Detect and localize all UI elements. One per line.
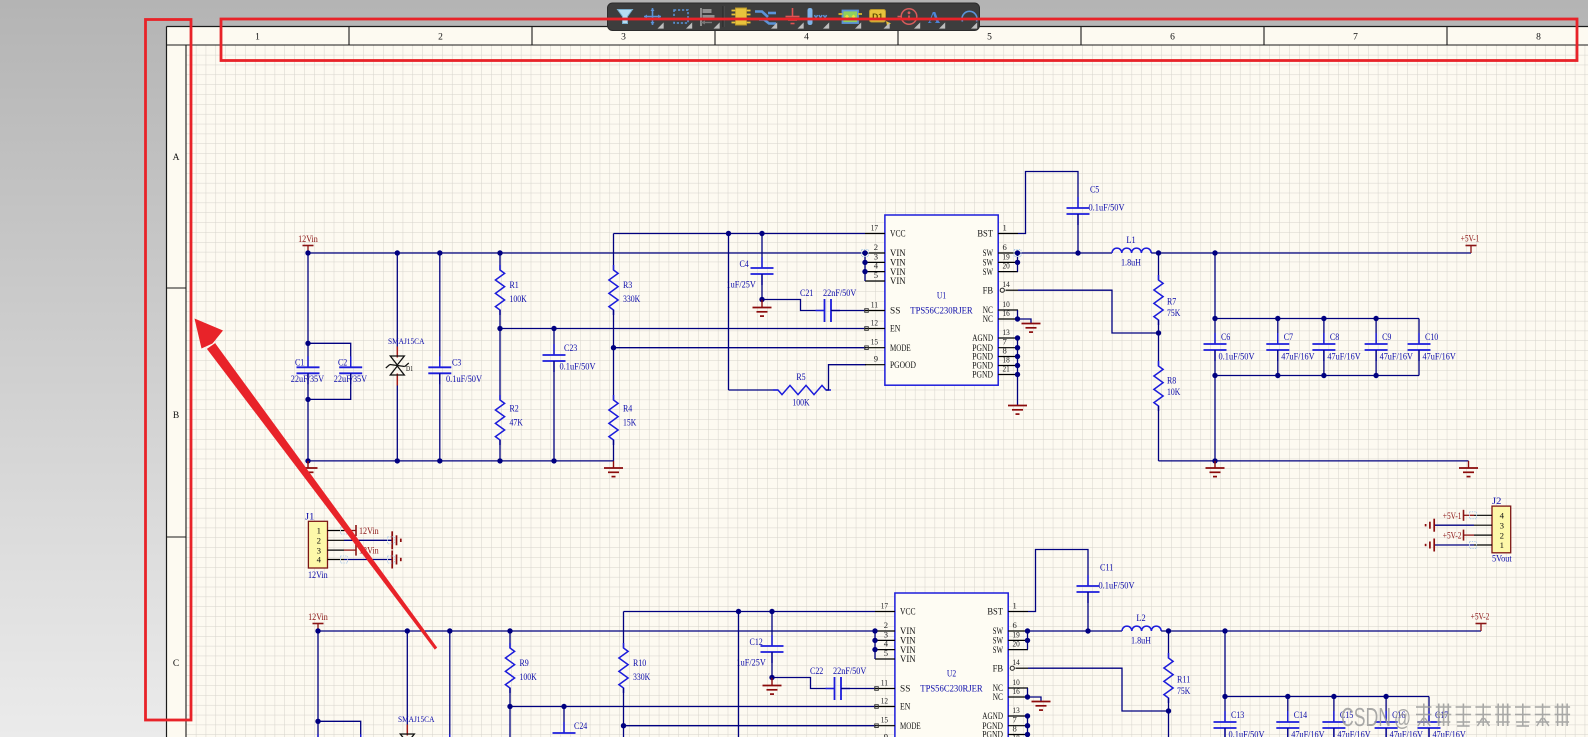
buck converter circuit 2 — [301, 550, 1490, 737]
junction C5/SW — [1085, 628, 1090, 633]
junction C3 branch — [437, 250, 442, 255]
ground at J1 pin2 — [392, 531, 401, 549]
ground at NC pins — [1032, 702, 1051, 711]
svg-text:C7: C7 — [1284, 333, 1294, 343]
capacitor C15 — [1322, 697, 1370, 737]
wire J1 pin2 to gnd — [344, 539, 392, 541]
capacitor C16 — [1375, 697, 1423, 737]
svg-text:0.1uF/50V: 0.1uF/50V — [1089, 204, 1125, 214]
wire FB net — [1018, 290, 1159, 333]
power port 12Vin (bottom) — [308, 613, 328, 631]
toolbar icon part body — [839, 11, 863, 29]
junction top bus C14 — [1285, 694, 1290, 699]
junction C4 — [769, 609, 774, 614]
toolbar icon move crosshair — [644, 8, 664, 29]
wire J1 pin4 to gnd — [344, 559, 392, 561]
svg-text:FB: FB — [993, 663, 1003, 673]
resistor R11 — [1164, 631, 1191, 711]
svg-text:L1: L1 — [1126, 236, 1136, 246]
wire VIN pin bus — [874, 631, 876, 659]
svg-text:C11: C11 — [1100, 564, 1114, 574]
red highlight rectangle left border zone — [146, 20, 192, 721]
svg-text:15: 15 — [871, 337, 878, 347]
capacitor C10 — [1408, 319, 1456, 376]
svg-text:47uF/16V: 47uF/16V — [1327, 353, 1360, 363]
buck converter circuit 1 — [291, 172, 1480, 477]
svg-text:1: 1 — [255, 33, 260, 43]
svg-text:R7: R7 — [1167, 298, 1177, 308]
junction MODE divider — [611, 345, 616, 350]
svg-text:L2: L2 — [1136, 614, 1146, 624]
resistor R14 PGOOD pull-up — [739, 612, 877, 737]
svg-text:A: A — [173, 153, 180, 163]
junction AGND13 — [1015, 335, 1020, 340]
svg-text:C23: C23 — [564, 344, 578, 354]
svg-text:0.1uF/50V: 0.1uF/50V — [560, 363, 596, 373]
svg-text:3: 3 — [1500, 520, 1505, 530]
svg-text:C5: C5 — [1090, 186, 1100, 196]
junction top bus C9 — [1373, 316, 1378, 321]
svg-text:C: C — [173, 659, 179, 669]
svg-text:SS: SS — [890, 306, 900, 316]
ground at C4 — [753, 300, 772, 317]
junction gnd R2 — [497, 458, 502, 463]
svg-text:+5V-1: +5V-1 — [1443, 512, 1462, 522]
svg-text:C24: C24 — [574, 722, 588, 732]
ground right rail end — [1459, 461, 1478, 477]
svg-text:C2: C2 — [338, 359, 348, 369]
capacitor C17 — [1418, 697, 1466, 737]
resistor R12 — [505, 707, 533, 737]
power port 12Vin at J1 pin1 — [344, 525, 379, 537]
junction VIN 3 — [862, 260, 867, 265]
svg-text:VCC: VCC — [890, 229, 906, 239]
svg-text:1: 1 — [1500, 540, 1504, 550]
svg-text:SS: SS — [900, 684, 910, 694]
svg-text:NC: NC — [993, 692, 1003, 702]
svg-text:1.8uH: 1.8uH — [1131, 637, 1151, 647]
toolbar icon text A — [928, 8, 945, 29]
wire output cap top bus — [1215, 253, 1419, 319]
floating toolbar — [608, 3, 980, 31]
svg-text:C21: C21 — [800, 289, 814, 299]
red annotation arrow — [195, 319, 438, 650]
svg-text:14: 14 — [1013, 657, 1021, 667]
svg-text:D1: D1 — [406, 365, 413, 373]
svg-text:CSDN: CSDN — [1341, 702, 1391, 732]
svg-text:PGND: PGND — [982, 730, 1003, 737]
svg-text:1: 1 — [1003, 223, 1007, 233]
svg-text:MODE: MODE — [900, 721, 921, 731]
compile marks (dotted) — [341, 250, 1477, 564]
svg-text:+5V-2: +5V-2 — [1471, 613, 1490, 623]
junction gnd C3 — [437, 458, 442, 463]
junction bottom bus C8 — [1321, 373, 1326, 378]
sheet border zone letters — [173, 153, 180, 669]
wire AGND/PGND bus — [1017, 338, 1019, 406]
junction top bus C6 — [1222, 694, 1227, 699]
wire MODE net — [624, 725, 877, 727]
wire inductor to output — [1151, 252, 1471, 254]
junction top bus C15 — [1331, 694, 1336, 699]
power port +5V-1 at J2 pin4 — [1443, 510, 1474, 522]
svg-text:47uF/16V: 47uF/16V — [1291, 731, 1324, 737]
svg-text:VIN: VIN — [900, 654, 916, 664]
junction output caps — [1222, 628, 1227, 633]
svg-text:C22: C22 — [810, 667, 824, 677]
svg-text:C10: C10 — [1425, 333, 1439, 343]
capacitor C14 — [1276, 697, 1324, 737]
svg-text:SMAJ15CA: SMAJ15CA — [398, 714, 435, 724]
junction FB divider — [1156, 330, 1161, 335]
wire SW to inductor — [1028, 630, 1123, 632]
capacitor C1 — [291, 253, 324, 461]
junction VIN 2 — [862, 250, 867, 255]
wire 12Vin rail — [318, 630, 875, 632]
svg-text:TPS56C230RJER: TPS56C230RJER — [920, 685, 983, 695]
junction top bus C7 — [1275, 316, 1280, 321]
inductor L2 — [1122, 614, 1161, 647]
svg-text:1: 1 — [1013, 601, 1017, 611]
svg-text:12Vin: 12Vin — [308, 571, 328, 581]
svg-text:11: 11 — [871, 300, 878, 310]
svg-text:C6: C6 — [1221, 333, 1231, 343]
svg-text:5: 5 — [884, 648, 888, 658]
svg-text:18: 18 — [1013, 733, 1020, 737]
junction C3 branch — [447, 628, 452, 633]
ground at PGND — [1008, 406, 1027, 415]
watermark CSDN — [1341, 702, 1570, 732]
svg-text:4: 4 — [1500, 511, 1505, 521]
svg-text:C3: C3 — [452, 359, 462, 369]
svg-text:12Vin: 12Vin — [308, 613, 328, 623]
svg-text:B: B — [173, 411, 179, 421]
toolbar icon no-ERC directive — [898, 9, 921, 29]
toolbar icon designator tag — [870, 10, 892, 29]
junction C23 tap — [551, 326, 556, 331]
junction C5/SW — [1075, 250, 1080, 255]
TVS diode D2 SMAJ15CA — [396, 631, 435, 737]
resistor R4 — [609, 348, 637, 461]
toolbar icon align — [701, 8, 720, 29]
junction gnd D — [395, 458, 400, 463]
junction R5 pullup — [736, 609, 741, 614]
TVS diode D1 SMAJ15CA — [386, 253, 425, 461]
wire VCC net — [624, 611, 876, 613]
wire AGND/PGND bus — [1027, 716, 1029, 737]
ground at C4 — [763, 678, 782, 695]
svg-text:PGOOD: PGOOD — [890, 360, 916, 370]
junction MODE divider — [621, 723, 626, 728]
svg-text:47uF/16V: 47uF/16V — [1433, 731, 1466, 737]
svg-text:47uF/16V: 47uF/16V — [1390, 731, 1423, 737]
svg-text:A: A — [928, 8, 941, 27]
svg-text:0.1uF/50V: 0.1uF/50V — [1219, 353, 1255, 363]
junction VIN 3 — [872, 638, 877, 643]
junction NC — [1025, 694, 1030, 699]
power port +5V-1 — [1461, 235, 1480, 254]
svg-text:12Vin: 12Vin — [359, 527, 379, 537]
junction D branch — [395, 250, 400, 255]
svg-text:100K: 100K — [520, 673, 537, 683]
capacitor C18 — [301, 631, 334, 737]
junction gnd C23 — [551, 458, 556, 463]
svg-text:U2: U2 — [947, 670, 957, 680]
svg-text:C12: C12 — [750, 638, 764, 648]
wire J2 pin1 to gnd — [1434, 544, 1474, 546]
svg-text:R8: R8 — [1167, 377, 1177, 387]
resistor R13 — [619, 726, 647, 737]
resistor R1 — [495, 253, 527, 329]
svg-text:22nF/50V: 22nF/50V — [823, 289, 856, 299]
junction R5 pullup — [726, 231, 731, 236]
capacitor C21 series to SS — [762, 289, 866, 322]
svg-text:4: 4 — [317, 555, 322, 565]
wire SW pin bus — [1027, 631, 1029, 650]
svg-text:VCC: VCC — [900, 607, 916, 617]
svg-text:330K: 330K — [623, 295, 640, 305]
power port 12Vin (top) — [298, 235, 318, 253]
svg-text:EN: EN — [890, 324, 901, 334]
svg-text:C9: C9 — [1382, 333, 1392, 343]
junction L out / R7 — [1166, 628, 1171, 633]
svg-text:AGND: AGND — [982, 711, 1003, 721]
toolbar icon place part — [732, 8, 751, 25]
wire J2 pin3 to gnd — [1434, 524, 1474, 526]
junction C4/C21 gnd node — [769, 675, 774, 680]
toolbar icon filter — [618, 10, 633, 24]
capacitor C6 — [1204, 319, 1255, 376]
wire output cap bottom bus — [1215, 376, 1419, 461]
junction PGND8 — [1025, 732, 1030, 737]
svg-text:47uF/16V: 47uF/16V — [1380, 353, 1413, 363]
svg-text:2: 2 — [317, 536, 321, 546]
junction VIN 4 — [872, 647, 877, 652]
wire inductor to output — [1161, 630, 1481, 632]
svg-text:3: 3 — [621, 33, 626, 43]
svg-text:C1: C1 — [295, 359, 305, 369]
svg-text:R1: R1 — [510, 281, 520, 291]
svg-text:22uF/35V: 22uF/35V — [291, 375, 324, 385]
wire EN net — [510, 706, 876, 708]
svg-text:FB: FB — [983, 285, 993, 295]
resistor R3 — [609, 234, 641, 348]
IC U2 TPS56C230RJER — [875, 593, 1028, 737]
svg-text:75K: 75K — [1167, 309, 1180, 319]
svg-text:C14: C14 — [1294, 711, 1308, 721]
svg-text:1.8uH: 1.8uH — [1121, 259, 1141, 269]
wire GND rail right — [1159, 460, 1469, 462]
ground under output caps — [1206, 461, 1225, 477]
ground at NC pins — [1022, 324, 1041, 333]
svg-text:R4: R4 — [623, 405, 633, 415]
wire SW pin bus — [1017, 253, 1019, 272]
toolbar icon arc — [962, 11, 977, 28]
junction C4 — [759, 231, 764, 236]
wire output cap top bus — [1225, 631, 1429, 697]
junction L out / R7 — [1156, 250, 1161, 255]
svg-text:SW: SW — [993, 645, 1004, 655]
connector J2 — [1474, 497, 1512, 565]
svg-text:100K: 100K — [510, 295, 527, 305]
junction NC — [1015, 316, 1020, 321]
svg-text:9: 9 — [874, 354, 878, 364]
svg-text:14: 14 — [1003, 279, 1011, 289]
svg-text:16: 16 — [1013, 686, 1021, 696]
wire VCC net — [614, 233, 866, 235]
svg-text:22nF/50V: 22nF/50V — [833, 667, 866, 677]
svg-text:AGND: AGND — [972, 333, 993, 343]
capacitor C24 — [553, 707, 606, 737]
junction C2 top — [315, 719, 320, 724]
connector J1 — [305, 513, 344, 582]
junction SW 6 — [1025, 628, 1030, 633]
resistor R8 — [1154, 333, 1181, 461]
capacitor C13 — [1214, 697, 1265, 737]
capacitor C3 — [428, 253, 482, 461]
svg-text:BST: BST — [987, 607, 1003, 617]
wire 12Vin rail — [308, 252, 865, 254]
power port 12Vin at J1 pin3 — [344, 545, 379, 557]
capacitor C11 bootstrap — [1028, 550, 1135, 632]
svg-text:MODE: MODE — [890, 343, 911, 353]
junction SW 19 — [1025, 638, 1030, 643]
resistor R15 — [1164, 711, 1191, 737]
svg-text:15K: 15K — [623, 419, 636, 429]
resistor R9 — [505, 631, 537, 707]
svg-text:SW: SW — [983, 267, 994, 277]
resistor R5 PGOOD pull-up — [729, 234, 867, 409]
svg-text:2: 2 — [1500, 530, 1504, 540]
svg-text:R11: R11 — [1177, 676, 1191, 686]
svg-text:8: 8 — [1536, 33, 1541, 43]
capacitor C2 — [308, 343, 367, 399]
junction PGND7 — [1025, 723, 1030, 728]
svg-text:PGND: PGND — [972, 370, 993, 380]
junction output caps — [1212, 250, 1217, 255]
svg-text:1uF/25V: 1uF/25V — [727, 281, 756, 291]
svg-text:5Vout: 5Vout — [1492, 555, 1512, 565]
capacitor C23 — [543, 329, 596, 461]
wire VIN pin bus — [864, 253, 866, 281]
svg-text:47K: 47K — [510, 419, 523, 429]
toolbar icon selection rectangle — [674, 10, 692, 29]
toolbar icon probe — [808, 8, 830, 29]
svg-text:20: 20 — [1003, 261, 1010, 271]
junction bottom bus C6 — [1212, 373, 1217, 378]
power port +5V-2 at J2 pin2 — [1443, 530, 1474, 542]
junction VIN 2 — [872, 628, 877, 633]
wire MODE net — [614, 347, 867, 349]
svg-text:R5: R5 — [796, 373, 806, 383]
junction gnd rail caps — [1212, 458, 1217, 463]
capacitor C4 — [727, 234, 774, 300]
wire GND rail left — [308, 460, 614, 462]
svg-text:1uF/25V: 1uF/25V — [737, 659, 766, 669]
svg-text:7: 7 — [1353, 33, 1358, 43]
svg-text:1: 1 — [317, 526, 321, 536]
svg-text:6: 6 — [1170, 33, 1175, 43]
svg-text:0.1uF/50V: 0.1uF/50V — [446, 375, 482, 385]
svg-text:R2: R2 — [510, 405, 520, 415]
toolbar separator — [723, 6, 724, 27]
svg-text:C4: C4 — [740, 260, 750, 270]
junction R divider branch — [497, 250, 502, 255]
junction SW 19 — [1015, 260, 1020, 265]
junction top bus C6 — [1212, 316, 1217, 321]
capacitor C7 — [1266, 319, 1314, 376]
svg-text:75K: 75K — [1177, 687, 1190, 697]
svg-text:TPS56C230RJER: TPS56C230RJER — [910, 307, 973, 317]
junction PGND18 — [1015, 363, 1020, 368]
svg-text:BST: BST — [977, 229, 993, 239]
junction AGND13 — [1025, 713, 1030, 718]
junction C2 top — [305, 341, 310, 346]
junction EN divider — [497, 326, 502, 331]
svg-text:C8: C8 — [1330, 333, 1340, 343]
sheet border column/row dividers — [167, 27, 1448, 538]
svg-text:VIN: VIN — [890, 276, 906, 286]
capacitor C8 — [1312, 319, 1360, 376]
svg-text:12: 12 — [881, 696, 888, 706]
svg-text:R9: R9 — [520, 659, 530, 669]
svg-text:0.1uF/50V: 0.1uF/50V — [1099, 582, 1135, 592]
wire NC bus — [1028, 688, 1042, 702]
svg-text:47uF/16V: 47uF/16V — [1281, 353, 1314, 363]
svg-text:4: 4 — [804, 33, 809, 43]
svg-text:NC: NC — [983, 314, 993, 324]
svg-text:@: @ — [1394, 705, 1411, 731]
svg-text:C13: C13 — [1231, 711, 1245, 721]
svg-text:9: 9 — [884, 732, 888, 737]
capacitor C5 bootstrap — [1018, 172, 1125, 254]
svg-text:0.1uF/50V: 0.1uF/50V — [1229, 731, 1265, 737]
svg-text:100K: 100K — [792, 399, 809, 409]
ground right of R4 — [604, 461, 623, 477]
junction FB divider — [1166, 708, 1171, 713]
svg-text:12: 12 — [871, 318, 878, 328]
junction 12Vin/C branch — [305, 250, 310, 255]
wire NC bus — [1018, 310, 1032, 324]
svg-text:13: 13 — [1013, 705, 1020, 715]
junction SW 6 — [1015, 250, 1020, 255]
junction 12Vin/C branch — [315, 628, 320, 633]
power port +5V-2 — [1471, 613, 1490, 632]
svg-text:47uF/16V: 47uF/16V — [1423, 353, 1456, 363]
capacitor C19 — [318, 721, 377, 737]
junction PGND21 — [1015, 372, 1020, 377]
junction D branch — [405, 628, 410, 633]
wire SW to inductor — [1018, 252, 1113, 254]
svg-text:10K: 10K — [1167, 388, 1180, 398]
red highlight rectangle top border zone — [221, 19, 1577, 61]
svg-text:21: 21 — [1003, 364, 1010, 374]
resistor R7 — [1154, 253, 1181, 333]
svg-text:20: 20 — [1013, 639, 1020, 649]
svg-text:EN: EN — [900, 702, 911, 712]
junction bottom bus C7 — [1275, 373, 1280, 378]
junction C2 bottom — [305, 397, 310, 402]
capacitor C12 — [737, 612, 784, 678]
svg-text:U1: U1 — [937, 292, 947, 302]
junction top bus C8 — [1321, 316, 1326, 321]
svg-text:R10: R10 — [633, 659, 647, 669]
junction R divider branch — [507, 628, 512, 633]
junction C4/C21 gnd node — [759, 297, 764, 302]
svg-text:5: 5 — [987, 33, 992, 43]
capacitor C9 — [1365, 319, 1413, 376]
svg-text:11: 11 — [881, 678, 888, 688]
